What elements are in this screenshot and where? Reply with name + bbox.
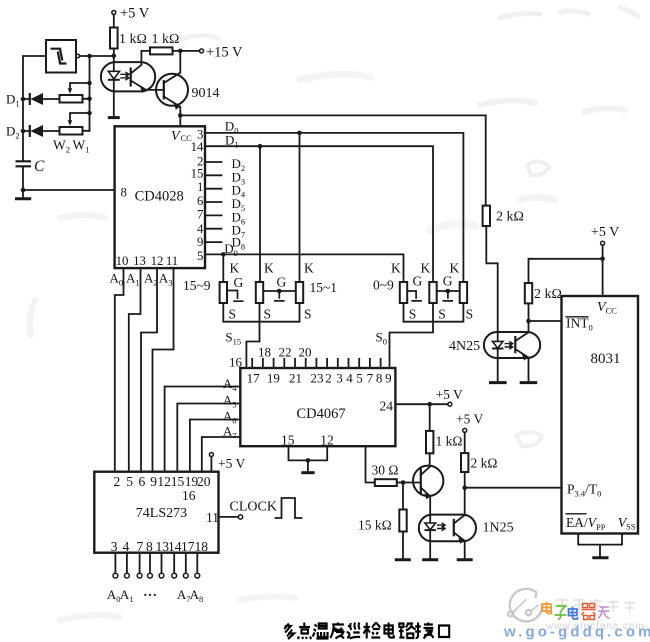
svg-text:9: 9 — [197, 235, 203, 249]
svg-text:1: 1 — [197, 180, 203, 194]
svg-text:D1: D1 — [6, 92, 20, 109]
svg-text:6: 6 — [197, 194, 204, 208]
svg-text:3: 3 — [111, 539, 118, 554]
svg-text:12: 12 — [320, 433, 334, 448]
svg-text:4N25: 4N25 — [449, 339, 480, 354]
svg-text:12: 12 — [157, 474, 171, 489]
svg-text:S: S — [264, 307, 272, 322]
svg-text:10: 10 — [116, 254, 129, 268]
svg-text:30 Ω: 30 Ω — [372, 463, 399, 478]
svg-text:2 kΩ: 2 kΩ — [534, 287, 562, 302]
svg-text:18: 18 — [258, 345, 271, 360]
svg-text:A5: A5 — [223, 393, 237, 410]
svg-text:3: 3 — [336, 371, 343, 386]
svg-text:G: G — [277, 275, 287, 290]
svg-text:8: 8 — [146, 539, 153, 554]
svg-text:G: G — [234, 275, 244, 290]
svg-text:7: 7 — [137, 539, 144, 554]
svg-text:1 kΩ: 1 kΩ — [436, 434, 463, 449]
svg-text:w.go-gddq.com: w.go-gddq.com — [503, 624, 650, 641]
svg-text:INT0: INT0 — [566, 316, 593, 333]
svg-text:K: K — [230, 261, 240, 276]
svg-text:15~9: 15~9 — [183, 278, 211, 293]
svg-text:A3: A3 — [159, 271, 173, 288]
svg-text:CLOCK: CLOCK — [230, 500, 277, 515]
svg-text:5: 5 — [197, 249, 203, 263]
svg-text:15: 15 — [191, 166, 204, 180]
svg-text:A7: A7 — [223, 424, 237, 441]
svg-text:21: 21 — [289, 371, 302, 386]
svg-text:W1: W1 — [73, 138, 90, 155]
svg-text:20: 20 — [299, 345, 312, 360]
svg-text:9: 9 — [385, 371, 392, 386]
svg-text:6: 6 — [139, 474, 146, 489]
svg-text:+5 V: +5 V — [591, 225, 619, 240]
svg-text:S: S — [229, 307, 237, 322]
svg-text:7: 7 — [197, 208, 204, 222]
svg-text:CC: CC — [606, 306, 618, 316]
svg-text:CD4067: CD4067 — [297, 406, 346, 422]
svg-text:8: 8 — [376, 371, 383, 386]
svg-text:+5 V: +5 V — [120, 6, 150, 22]
svg-text:11: 11 — [166, 254, 178, 268]
svg-text:G: G — [443, 274, 453, 289]
svg-text:14: 14 — [191, 140, 204, 154]
svg-text:A0: A0 — [110, 271, 124, 288]
svg-text:A8: A8 — [190, 587, 204, 604]
svg-text:1N25: 1N25 — [483, 521, 514, 536]
svg-text:S: S — [438, 307, 446, 322]
svg-text:S: S — [409, 307, 417, 322]
svg-text:7: 7 — [367, 371, 374, 386]
svg-text:15~1: 15~1 — [310, 280, 338, 295]
svg-text:2: 2 — [325, 371, 332, 386]
svg-text:20: 20 — [197, 474, 211, 489]
svg-text:S15: S15 — [225, 330, 241, 347]
svg-text:A1: A1 — [126, 271, 140, 288]
svg-text:+5 V: +5 V — [436, 387, 463, 402]
svg-text:+5 V: +5 V — [456, 412, 483, 427]
svg-text:9014: 9014 — [192, 86, 220, 101]
svg-text:16: 16 — [182, 488, 196, 503]
svg-text:4: 4 — [123, 539, 130, 554]
svg-text:K: K — [304, 261, 314, 276]
svg-text:17: 17 — [181, 539, 195, 554]
svg-text:K: K — [264, 261, 274, 276]
svg-text:S0: S0 — [376, 330, 387, 347]
svg-text:16: 16 — [229, 355, 243, 370]
svg-text:24: 24 — [380, 399, 394, 414]
svg-text:+15 V: +15 V — [206, 45, 243, 61]
svg-text:K: K — [391, 261, 401, 276]
svg-text:8031: 8031 — [591, 351, 621, 367]
svg-text:C: C — [34, 158, 45, 175]
svg-text:P3.4/T0: P3.4/T0 — [567, 482, 601, 499]
svg-text:W2: W2 — [53, 138, 70, 155]
svg-text:SS: SS — [626, 522, 636, 532]
svg-text:5: 5 — [356, 371, 363, 386]
svg-text:15: 15 — [281, 433, 295, 448]
svg-text:11: 11 — [206, 510, 219, 525]
svg-text:1 kΩ: 1 kΩ — [119, 32, 147, 47]
svg-text:A2: A2 — [144, 271, 158, 288]
svg-text:…: … — [143, 585, 157, 600]
svg-text:A7: A7 — [177, 587, 191, 604]
svg-text:9: 9 — [150, 474, 157, 489]
svg-text:13: 13 — [133, 254, 146, 268]
svg-text:V: V — [171, 129, 181, 144]
svg-text:A1: A1 — [120, 587, 134, 604]
svg-text:4: 4 — [346, 371, 353, 386]
svg-text:12: 12 — [151, 254, 164, 268]
svg-text:15: 15 — [171, 474, 185, 489]
svg-text:23: 23 — [311, 371, 324, 386]
svg-text:1 kΩ: 1 kΩ — [152, 32, 180, 47]
svg-text:2 kΩ: 2 kΩ — [471, 456, 498, 471]
svg-text:22: 22 — [279, 345, 292, 360]
svg-text:D2: D2 — [6, 124, 20, 141]
svg-text:+5 V: +5 V — [218, 456, 245, 471]
svg-text:EA/VPP: EA/VPP — [566, 515, 606, 532]
svg-text:18: 18 — [195, 539, 209, 554]
svg-text:2: 2 — [114, 474, 121, 489]
svg-text:A0: A0 — [107, 587, 121, 604]
svg-text:S: S — [466, 307, 474, 322]
svg-text:G: G — [413, 274, 423, 289]
svg-text:8: 8 — [121, 186, 127, 200]
svg-text:15 kΩ: 15 kΩ — [358, 518, 392, 533]
svg-text:5: 5 — [126, 474, 133, 489]
svg-text:14: 14 — [168, 539, 182, 554]
svg-text:0~9: 0~9 — [373, 278, 394, 293]
svg-text:A4: A4 — [223, 376, 237, 393]
svg-text:CD4028: CD4028 — [135, 189, 184, 205]
svg-text:S: S — [304, 307, 312, 322]
svg-text:17: 17 — [247, 371, 261, 386]
svg-text:74LS273: 74LS273 — [136, 506, 187, 521]
svg-text:19: 19 — [267, 371, 280, 386]
svg-text:2 kΩ: 2 kΩ — [496, 210, 524, 225]
